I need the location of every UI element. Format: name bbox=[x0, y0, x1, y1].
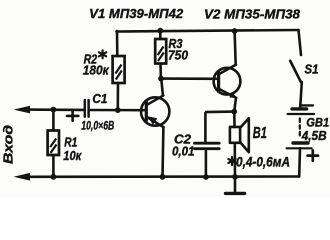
svg-text:V1 МП39-МП42: V1 МП39-МП42 bbox=[89, 6, 184, 21]
svg-text:C1: C1 bbox=[92, 92, 107, 106]
svg-text:S1: S1 bbox=[305, 63, 319, 77]
svg-text:10,0×6В: 10,0×6В bbox=[81, 119, 114, 133]
svg-text:180к: 180к bbox=[83, 63, 110, 77]
svg-text:В1: В1 bbox=[253, 125, 267, 142]
svg-text:0,4-0,6мА: 0,4-0,6мА bbox=[236, 155, 290, 170]
svg-text:750: 750 bbox=[168, 49, 188, 63]
svg-text:10к: 10к bbox=[63, 149, 82, 163]
svg-text:R1: R1 bbox=[64, 136, 77, 150]
svg-text:0,01: 0,01 bbox=[172, 145, 195, 159]
svg-text:4,5В: 4,5В bbox=[301, 129, 327, 143]
svg-text:GB1: GB1 bbox=[306, 116, 329, 130]
svg-text:Вход: Вход bbox=[2, 125, 16, 164]
svg-text:V2 МП35-МП38: V2 МП35-МП38 bbox=[204, 7, 301, 22]
